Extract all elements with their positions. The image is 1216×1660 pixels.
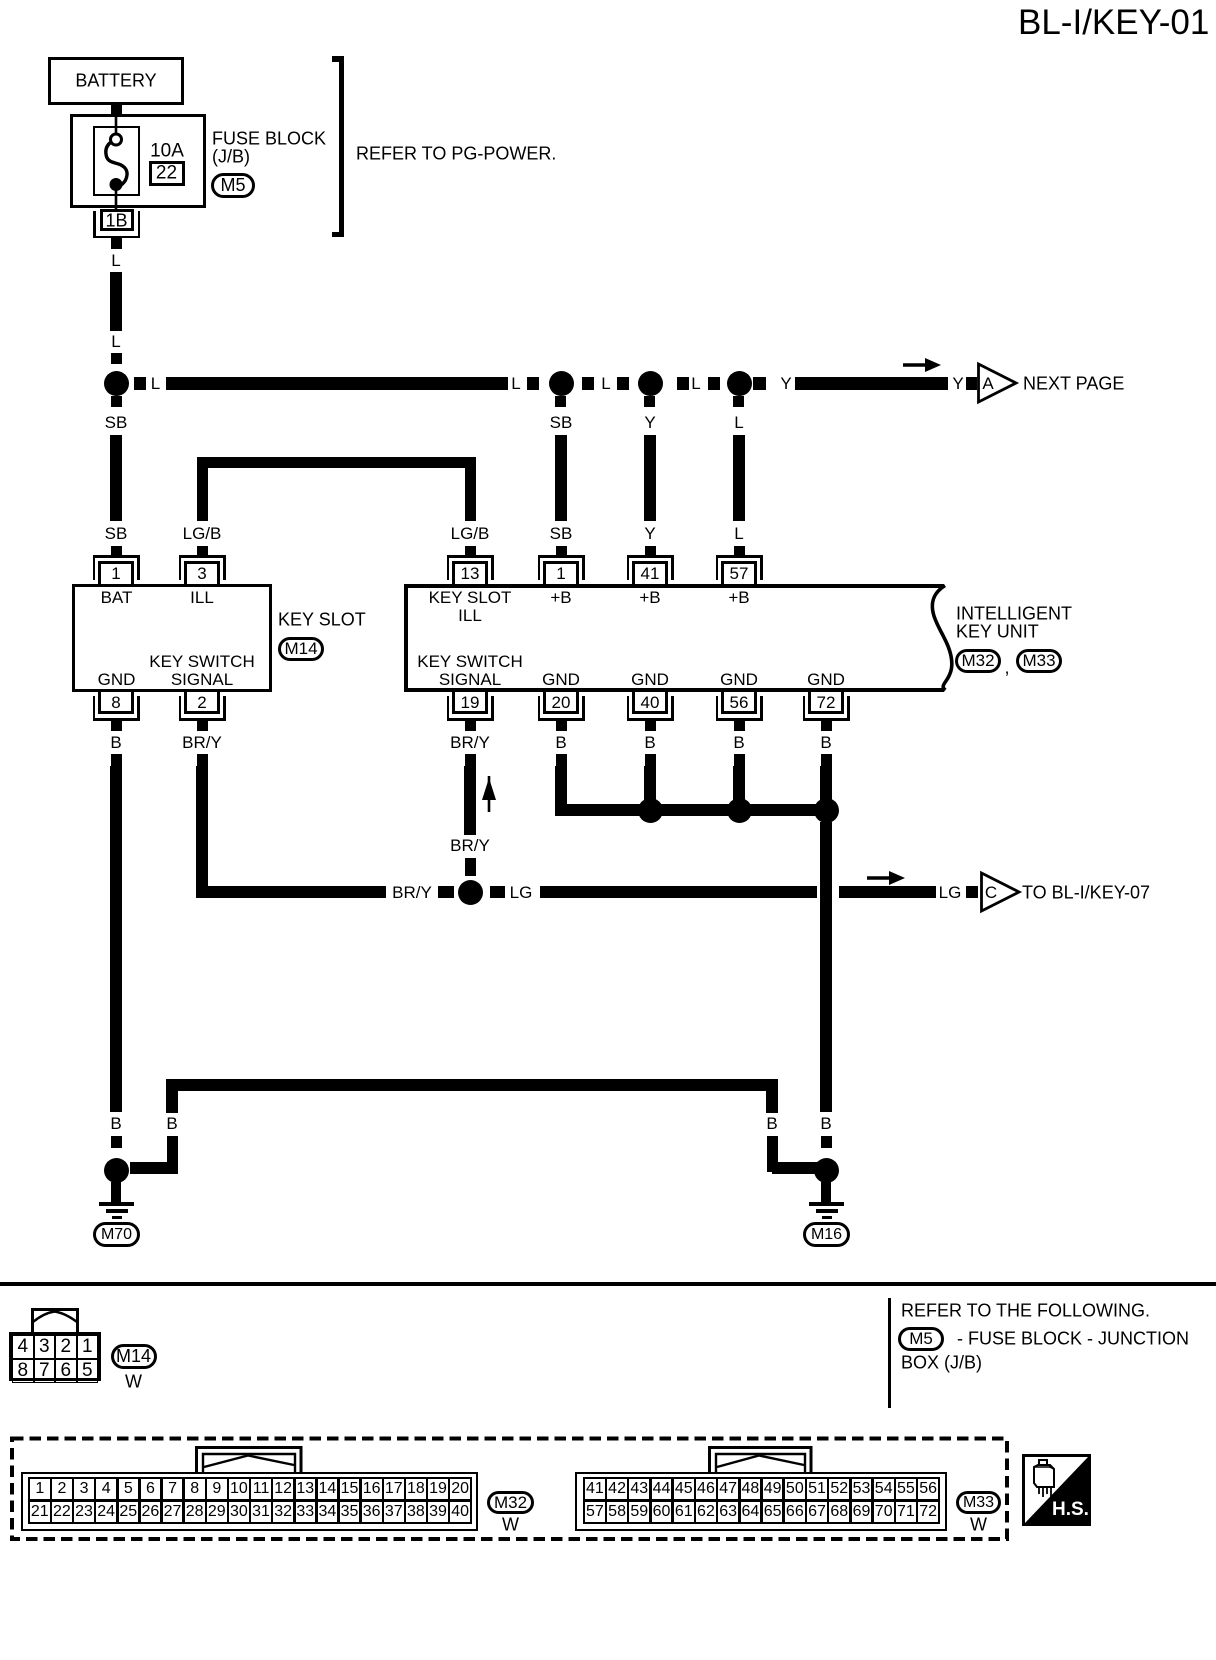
label KEY SLOT ILL	[0, 0, 1, 1]
wire SB bus to IKU pin 1	[0, 0, 1, 1]
junction node BR/Y-LG	[458, 880, 483, 905]
label KEY SWITCH SIGNAL	[0, 0, 1, 1]
pin 41 +B (top)	[0, 0, 1, 1]
bus wire L segment 1	[0, 0, 1, 1]
pin 40 (bottom)	[0, 0, 1, 1]
ground M70	[0, 0, 1, 1]
label ILL	[190, 589, 214, 607]
label KEY SWITCH SIGNAL	[0, 0, 1, 1]
pin 20 (bottom)	[0, 0, 1, 1]
pin 57 +B (top)	[0, 0, 1, 1]
connector M14 pinout	[0, 0, 2, 2]
pin 1 BAT (top)	[0, 0, 1, 1]
pin 56 (bottom)	[0, 0, 1, 1]
battery	[0, 0, 1, 1]
wire B key slot pin 8 to ground M70	[0, 0, 1, 1]
connector M32	[955, 649, 1001, 673]
bus wire L segment 2	[0, 0, 1, 1]
fuse rating box 22	[0, 0, 1, 1]
junction node G1	[104, 1158, 129, 1183]
wire B ground link (M70 to M16)	[0, 0, 1, 1]
fuse 22 10A	[0, 0, 1, 1]
connector M33 pinout	[0, 0, 2, 2]
wire battery to fuse block	[111, 105, 122, 114]
label GND pin40	[631, 671, 669, 689]
off-page connector C TO BL-I/KEY-07	[980, 871, 1022, 913]
junction node B1	[638, 798, 663, 823]
off-page connector A NEXT PAGE	[977, 362, 1019, 404]
ground M16	[0, 0, 1, 1]
wire B IKU pin 56	[0, 0, 1, 1]
wire B junction to ground M16	[0, 0, 1, 1]
separator line	[0, 1282, 1216, 1286]
wire BR/Y IKU pin 19 to junction	[0, 0, 1, 1]
label +B pin41	[639, 589, 660, 607]
fuse block (J/B)	[70, 114, 206, 208]
junction node B2	[727, 798, 752, 823]
pin 1 +B (top)	[0, 0, 1, 1]
wire Y bus to IKU pin 41	[0, 0, 1, 1]
pin 72 (bottom)	[0, 0, 1, 1]
comma	[1004, 658, 1009, 677]
connector M33	[1016, 649, 1062, 673]
pin 8 (bottom)	[0, 0, 1, 1]
pin 3 ILL (top)	[0, 0, 1, 1]
wire LG/B key slot pin 3 to IKU pin 13	[0, 0, 1, 1]
wire SB bus to key slot pin 1	[0, 0, 1, 1]
label +B pin57	[728, 589, 749, 607]
label GND pin72	[807, 671, 845, 689]
bus wire Y segment to next page	[0, 0, 1, 1]
key slot M14 (component box)	[72, 584, 272, 692]
label KEY SLOT / connector M14	[0, 0, 1, 1]
label BAT	[101, 589, 133, 607]
wire B IKU pin 40	[0, 0, 1, 1]
note REFER TO THE FOLLOWING	[0, 0, 1, 1]
wire BR/Y key slot pin 2 to junction	[0, 0, 1, 1]
wire B IKU pin 20	[0, 0, 1, 1]
pin 19 (bottom)	[0, 0, 1, 1]
intelligent key unit M32/M33 (component box, torn right edge)	[0, 0, 2, 2]
label GND	[98, 671, 136, 689]
H.S. logo	[1022, 1454, 1091, 1526]
junction node L4	[727, 371, 752, 396]
junction node L1	[104, 371, 129, 396]
bus wire L segment 3	[0, 0, 1, 1]
junction node L3	[638, 371, 663, 396]
connector 1B	[0, 0, 1, 1]
wire LG junction to BL-I/KEY-07	[0, 0, 1, 1]
junction node G2	[814, 1158, 839, 1183]
bracket REFER TO PG-POWER	[0, 0, 1, 1]
junction node L2	[549, 371, 574, 396]
arrow (direction)	[903, 355, 943, 375]
label GND pin56	[720, 671, 758, 689]
wire L bus to IKU pin 57	[0, 0, 1, 1]
connector M32 pinout	[0, 0, 2, 2]
svg-text:H.S.: H.S.	[1052, 1499, 1089, 1520]
junction node B3	[814, 798, 839, 823]
pin 13 KEY SLOT ILL (top)	[0, 0, 1, 1]
label INTELLIGENT KEY UNIT	[0, 0, 1, 1]
wire B IKU pin 72	[0, 0, 1, 1]
wire L from fuse 1B to bus junction	[0, 0, 1, 1]
connector M5	[211, 173, 255, 198]
arrow (direction)	[867, 868, 907, 888]
label GND pin20	[542, 671, 580, 689]
title BL-I/KEY-01	[1018, 4, 1209, 42]
pin 2 (bottom)	[0, 0, 1, 1]
arrow up (signal direction)	[480, 776, 498, 813]
label +B pin1	[550, 589, 571, 607]
label FUSE BLOCK (J/B)	[0, 0, 1, 1]
